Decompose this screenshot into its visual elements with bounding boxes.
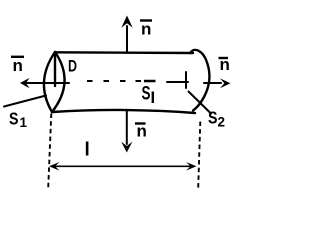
- svg-text:n: n: [137, 122, 147, 141]
- diameter line inside left cap: [54, 53, 56, 86]
- axis end tick: [185, 72, 187, 88]
- extension dashed line left: [48, 114, 51, 189]
- left normal arrow shaft: [27, 82, 69, 84]
- label S2: [208, 108, 225, 130]
- svg-text:D: D: [68, 56, 77, 75]
- svg-text:S: S: [142, 83, 151, 105]
- right normal arrowhead: [220, 78, 231, 88]
- left normal arrowhead: [20, 78, 30, 88]
- left end cap lens right arc: [52, 52, 65, 112]
- axis solid segment right: [167, 81, 188, 83]
- axis dashed line: [87, 80, 141, 82]
- right normal arrow shaft: [204, 82, 221, 84]
- cylinder bottom line: [53, 110, 196, 113]
- up normal arrow shaft: [126, 26, 128, 53]
- svg-text:S: S: [9, 109, 19, 129]
- svg-text:n: n: [13, 56, 23, 75]
- svg-text:1: 1: [20, 115, 28, 130]
- down normal arrow shaft: [126, 111, 128, 144]
- label n-bar left: [11, 56, 24, 75]
- svg-text:n: n: [141, 19, 151, 38]
- svg-text:l: l: [85, 140, 90, 161]
- svg-text:n: n: [220, 55, 230, 74]
- cylinder top line: [55, 51, 193, 54]
- label n-bar bottom: [135, 122, 147, 141]
- label n-bar right: [219, 55, 230, 74]
- label S1: [9, 109, 28, 131]
- dimension left arrowhead: [49, 162, 60, 171]
- down normal arrowhead: [121, 142, 132, 153]
- dimension right arrowhead: [186, 162, 197, 171]
- svg-text:S: S: [208, 108, 218, 128]
- up normal arrowhead: [121, 16, 132, 28]
- leader line to S1: [4, 96, 46, 107]
- leader line to S2: [189, 92, 212, 114]
- svg-text:2: 2: [218, 115, 226, 130]
- label n-bar top: [140, 19, 152, 38]
- extension dashed line right: [198, 122, 200, 189]
- dimension line l: [51, 165, 194, 167]
- left end cap lens left arc: [44, 52, 55, 112]
- right end cap arc S2: [191, 50, 210, 111]
- label S-bar-l lateral surface: [142, 81, 156, 105]
